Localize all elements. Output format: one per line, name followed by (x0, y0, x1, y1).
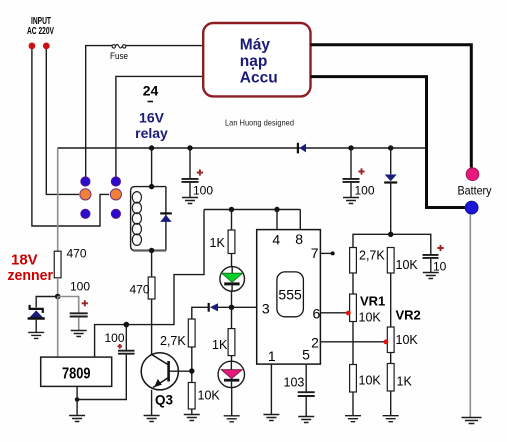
node rail-cap351 (348, 145, 353, 150)
wire R8 to ground (352, 392, 354, 416)
node coil bottom (149, 248, 154, 253)
terminal AC input dot 1 (29, 43, 36, 50)
svg-text:AC 220V: AC 220V (27, 26, 54, 37)
diode D3 (anode to rail, cathode down to sense divider) (384, 148, 397, 234)
regulator U2 7809 (41, 357, 112, 386)
wire pin 5 to C5 (305, 364, 307, 391)
svg-text:8: 8 (295, 231, 303, 247)
svg-text:103: 103 (284, 376, 305, 390)
terminal battery negative (blue) (465, 201, 478, 214)
node rail-cap190 (187, 145, 192, 150)
ground zener (28, 332, 44, 338)
svg-text:Máy: Máy (240, 37, 271, 54)
wire VR2 to R10 (390, 353, 392, 364)
ground C1 (182, 198, 198, 204)
capacitor C2 100u (at rail x=351) (343, 148, 375, 198)
svg-text:VR2: VR2 (396, 308, 421, 323)
wire LED2 to ground (231, 388, 233, 416)
wire 7809 output up and right to 9V rail (95, 210, 204, 358)
resistor R3 1K (green LED) (228, 230, 235, 254)
resistor R5 10K (Q3 base bottom) (188, 383, 195, 410)
ground LED2 (224, 416, 240, 422)
svg-text:zenner: zenner (8, 267, 54, 284)
wire 9V rail y=209.5 (204, 209, 300, 211)
resistor R8 10K (350, 365, 357, 393)
wire pin 8 stub (299, 210, 301, 230)
node pin3/1K/diode (229, 305, 234, 310)
wire charger output positive (thick, to battery + ) (311, 45, 472, 168)
wire R7 to VR1 (352, 273, 354, 294)
svg-text:10K: 10K (359, 311, 382, 325)
svg-text:7: 7 (311, 245, 319, 261)
ground Q3 emitter (144, 416, 160, 422)
svg-text:Fuse: Fuse (110, 51, 128, 62)
svg-text:2: 2 (311, 334, 319, 350)
wire R4 to base node (191, 347, 193, 383)
node 9V/cap C4 (124, 322, 130, 328)
node coil top (149, 184, 154, 189)
svg-text:10K: 10K (396, 258, 419, 272)
wire fuse line to charger box (86, 46, 204, 177)
svg-text:10K: 10K (359, 374, 382, 388)
svg-text:100: 100 (193, 184, 213, 198)
capacitor C3 100u (zener node) (58, 297, 88, 331)
wire AC line 1 (left input to right relay common) (32, 47, 109, 226)
ground C2 (343, 198, 359, 204)
wire rail to relay coil top (151, 148, 153, 187)
wire LED1 to pin3 node (231, 291, 233, 307)
resistor R6 1K (red LED) (228, 329, 235, 356)
wire pin 3 net (192, 307, 257, 319)
wire AC line 2 (right input to left relay common) (46, 47, 79, 194)
relay contacts: common left (orange) (80, 189, 91, 200)
fuse F1 (110, 44, 128, 62)
resistor R2 470 (148, 277, 155, 299)
block charger "Máy nạp Accu" (203, 23, 310, 96)
node Q3 base (189, 368, 194, 373)
svg-text:10K: 10K (198, 389, 221, 403)
svg-text:Battery: Battery (458, 184, 492, 198)
svg-text:10K: 10K (396, 333, 419, 347)
wire sense top rail y=234.3 (353, 234, 431, 254)
wire pin 7 stub (320, 252, 331, 254)
wire pin 4 stub (276, 210, 278, 230)
svg-text:6: 6 (313, 306, 321, 322)
wire pin 2 to VR2 wiper (320, 341, 384, 343)
wire 7809 ground (76, 386, 78, 415)
transistor Q3 (141, 353, 189, 416)
svg-text:relay: relay (135, 125, 168, 141)
wire pin 6 to VR1 wiper (320, 312, 347, 314)
svg-text:555: 555 (278, 287, 302, 303)
ground C5 (298, 417, 314, 423)
wire R5 to ground (191, 409, 193, 414)
resistor R7 2,7K (350, 248, 357, 274)
svg-text:Q3: Q3 (155, 393, 174, 408)
ground R10 (383, 416, 399, 422)
svg-text:Accu: Accu (240, 70, 278, 87)
label INPUT AC 220V (27, 16, 54, 37)
zener diode ZD1 18V (cathode up) (28, 305, 45, 332)
wire coil bottom to R2 (151, 251, 153, 278)
wire zener node to 7809 input (57, 297, 59, 358)
wire R1 to zener node (57, 278, 59, 297)
svg-text:2,7K: 2,7K (359, 249, 385, 263)
node rail-diode390 (388, 145, 393, 150)
ground C3 (71, 331, 87, 337)
potentiometer VR1 10K (346, 294, 357, 322)
wire 9V node to R3 and R3 to LED1 (231, 210, 233, 267)
node diode/VR2 chain top (388, 232, 393, 237)
svg-text:1K: 1K (397, 375, 413, 389)
terminal AC input dot 2 (43, 43, 50, 50)
wire relay NO contact 2 to charger box (116, 76, 203, 176)
potentiometer VR2 10K (384, 327, 395, 353)
svg-text:VR1: VR1 (360, 294, 385, 309)
wire battery negative to ground (469, 214, 471, 417)
wire R2 to Q3 collector (151, 299, 153, 354)
wire R9 to VR2 (390, 273, 392, 327)
diode D2 flyback across coil (cathode up) (160, 213, 172, 222)
relay coil K1 (131, 187, 166, 251)
IC U1 555 (257, 230, 321, 365)
label 24 - 16V relay (135, 83, 168, 141)
svg-text:4: 4 (272, 232, 280, 248)
svg-text:10: 10 (433, 260, 447, 274)
diode D1 on rail (cathode left) (298, 143, 306, 154)
ground R5 (184, 415, 200, 421)
capacitor C1 100u (at rail x=190) (182, 148, 214, 198)
wire charger output negative (thick, to battery - ) (311, 77, 466, 208)
relay contacts: common right (orange) (110, 189, 121, 200)
ground C6 (423, 273, 439, 279)
ground 7809 (69, 416, 85, 422)
svg-text:100: 100 (355, 184, 375, 198)
svg-text:18V: 18V (11, 252, 38, 269)
node zener/cap/7809 input (55, 294, 61, 300)
resistor R10 1K (387, 364, 394, 392)
capacitor C4 100u (9V output) (77, 325, 134, 400)
ground battery negative (462, 418, 482, 424)
node 9V to 1K LED (229, 207, 234, 212)
node 7809 ground (75, 397, 80, 402)
LED D6 red (218, 361, 244, 387)
LED D4 green (220, 267, 245, 292)
resistor R9 10K (VR2 top) (387, 248, 394, 274)
relay contacts: NO contact left (blue) (81, 177, 90, 186)
svg-text:1: 1 (268, 348, 276, 364)
node rail-relay (149, 145, 154, 150)
node pin 7 end dot (331, 251, 335, 255)
capacitor C6 10u (423, 245, 447, 274)
relay contacts: NC contact left (blue) (81, 209, 90, 218)
svg-text:7809: 7809 (62, 366, 91, 383)
svg-text:470: 470 (130, 283, 150, 297)
terminal battery positive (pink) (466, 168, 479, 181)
wire node to R6 and R6 to LED2 (231, 307, 233, 361)
node 9V to pin4 (274, 207, 279, 212)
svg-text:470: 470 (67, 247, 87, 261)
svg-text:2,7K: 2,7K (160, 334, 186, 348)
relay contacts: NO contact right (blue) (111, 177, 120, 186)
wire node to zener (36, 297, 58, 308)
diode D5 (cathode left, to 2.7K) (209, 303, 218, 312)
svg-text:Lan Huong designed: Lan Huong designed (225, 118, 294, 128)
ground R8 (345, 416, 361, 422)
svg-text:3: 3 (262, 301, 270, 317)
capacitor C5 103 (298, 392, 315, 416)
svg-text:100: 100 (70, 280, 90, 294)
label 18V zenner (8, 252, 54, 285)
ground pin 1 (263, 415, 279, 421)
resistor R4 2,7K (Q3 base top) (188, 319, 195, 347)
wire VR1 to R8 (352, 322, 354, 365)
svg-text:5: 5 (302, 347, 310, 363)
svg-text:16V: 16V (139, 110, 165, 126)
wire main DC rail y=148 (58, 147, 426, 149)
wire pin 1 to ground (270, 364, 272, 414)
wire R10 to ground (390, 391, 392, 416)
svg-text:1K: 1K (210, 236, 226, 250)
relay contacts: NC contact right (blue) (111, 209, 120, 218)
svg-text:100: 100 (105, 331, 125, 345)
wire rail down to R1 (gray drop) (57, 149, 59, 252)
svg-text:1K: 1K (212, 338, 228, 352)
svg-text:24: 24 (143, 83, 159, 99)
resistor R1 470 (54, 251, 61, 278)
